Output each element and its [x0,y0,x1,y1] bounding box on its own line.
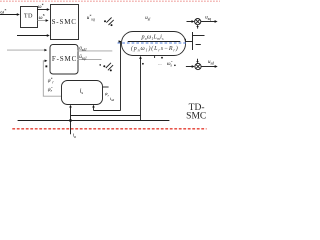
wire bottom bus [18,120,170,122]
wire V1 current input to flux block [119,42,121,111]
svg-text:ia: ia [73,134,76,139]
red dotted boundary top [0,0,220,2]
block TD [21,7,38,28]
node marker dot [45,65,47,67]
summer top [195,19,201,25]
block S-SMC [51,5,79,40]
wire stub current model output [103,86,109,88]
wire H1 from current model [94,110,121,112]
wire F-SMC output u_sd1 [78,50,113,52]
wire flux feedback into F-SMC [43,61,61,96]
wire H2 measurement bus branch [71,115,141,117]
wire omega* input [0,14,18,16]
block flux controller F-SMC [50,45,78,75]
fraction bar [128,41,181,43]
wire up into top summer [197,26,199,29]
stub below flux block [154,56,156,58]
wire break mark (double slash) [104,20,106,22]
svg-text:...: ... [158,61,161,66]
wire F-SMC output u_sq1 [78,59,102,61]
svg-text:S-SMC: S-SMC [52,18,77,26]
wire TD to S-SMC lower [38,20,46,22]
relay sign-function symbol [192,32,194,50]
svg-text:usd: usd [208,60,214,65]
wire speed feedback into S-SMC [17,35,48,37]
svg-text:ψ̂r: ψ̂r [48,88,53,93]
svg-text:SMC: SMC [186,112,206,122]
svg-text:ω̂s: ω̂s [167,62,173,67]
wire flux reference into F-SMC [7,49,45,51]
svg-text:usl: usl [145,16,150,21]
wire V2 up into flux block bottom [140,57,142,121]
wire into bottom summer left [186,66,193,68]
wire TD to S-SMC upper [38,9,48,11]
junction dot near V2 [142,63,144,65]
red dashed boundary bottom [12,128,206,130]
summer bottom [195,63,201,69]
svg-text:usq: usq [205,15,211,20]
wire into top summer [187,21,193,23]
wire M1 stator current measurement [70,106,72,134]
svg-text:TD: TD [24,13,33,20]
wire stub up into current model [93,106,95,111]
blue dashed annotation line [118,42,189,44]
block rotor-flux transfer function (stadium) [122,32,186,56]
wire bottom summer output u_sd [201,66,216,68]
svg-text:F-SMC: F-SMC [52,55,77,63]
node dots and omega_s label [161,57,163,59]
block current model i_s [62,81,103,105]
wire top summer output u_sq [201,21,216,23]
wire break mark lower (double slash) [99,64,101,66]
wire into bottom summer top [197,59,199,62]
